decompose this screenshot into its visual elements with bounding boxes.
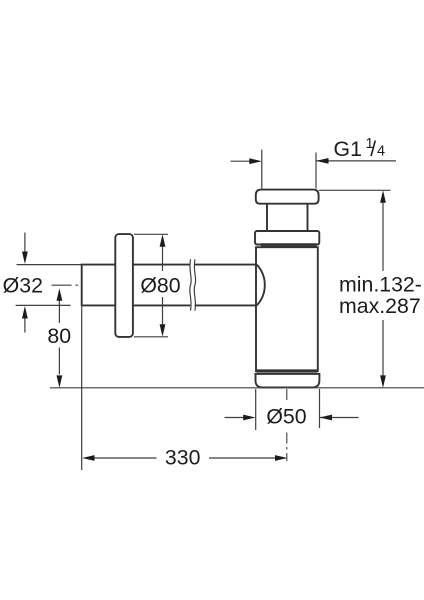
dim 80 vertical line with arrows — [57, 288, 63, 388]
neck tailpiece — [267, 203, 308, 231]
dim Ø50 extension line left — [255, 389, 257, 430]
svg-text:4: 4 — [377, 144, 385, 160]
pipe break line left — [190, 259, 192, 310]
svg-text:80: 80 — [47, 324, 71, 348]
top nut (inlet flange) — [256, 190, 319, 204]
bottle centerline (dash-dot) — [286, 389, 288, 403]
dim Ø32 extension line top — [17, 264, 82, 266]
dim Ø80 vertical line with arrows — [160, 234, 166, 336]
label G1 1/4 — [334, 136, 386, 161]
dim Ø32 top arrow (pointing down) — [22, 233, 28, 265]
svg-text:Ø32: Ø32 — [3, 274, 43, 298]
dim min extension line (top, at flange top) — [319, 189, 391, 191]
svg-text:Ø50: Ø50 — [266, 404, 306, 428]
svg-text:Ø80: Ø80 — [140, 274, 180, 298]
label min.132-max.287 — [339, 273, 422, 318]
baseline reference line (bottom of trap) — [50, 387, 424, 389]
svg-text:/: / — [370, 138, 376, 161]
wall pipe (horizontal inlet pipe, right section) — [195, 265, 256, 306]
dim Ø50 right arrow — [320, 415, 359, 421]
svg-text:max.287: max.287 — [339, 294, 421, 318]
pipe centerline (dash-dot) — [52, 284, 82, 286]
inlet bulge arc into cylinder — [257, 265, 265, 306]
svg-text:G1: G1 — [334, 137, 362, 161]
pipe break line right — [194, 259, 196, 310]
dim G1 1/4 right arrow — [316, 158, 396, 164]
svg-text:330: 330 — [165, 446, 201, 470]
pipe end extension line (vertical, for 330 dim) — [81, 307, 83, 471]
collar nut — [255, 231, 319, 245]
wall flange rosette (Ø80 disc) — [115, 234, 133, 337]
seal ring under collar — [262, 244, 317, 246]
dim G1 1/4 left arrow — [231, 158, 262, 164]
dim Ø32 bottom arrow (pointing up) — [22, 306, 28, 333]
dim 330 right arrow — [209, 455, 288, 461]
dim min.132-max.287 vertical line with arrows — [380, 190, 386, 388]
bottle cylinder body — [256, 247, 318, 371]
dim Ø32 extension line bottom — [16, 304, 71, 306]
bottom cap — [256, 374, 320, 388]
dim Ø50 left arrow — [225, 415, 256, 421]
wall pipe (horizontal inlet pipe, left section) — [82, 264, 191, 307]
dim Ø80 extension line bottom — [134, 336, 168, 338]
dim Ø50 extension line right — [319, 389, 321, 428]
cylinder bottom seam (thick line) — [257, 369, 318, 372]
dim Ø80 extension line top — [134, 233, 168, 235]
dim G1 1/4 extension line left — [261, 150, 263, 189]
dim G1 1/4 extension line right — [315, 153, 317, 189]
dim 330 left arrow — [82, 455, 157, 461]
bottle centerline lower segment — [286, 433, 288, 462]
